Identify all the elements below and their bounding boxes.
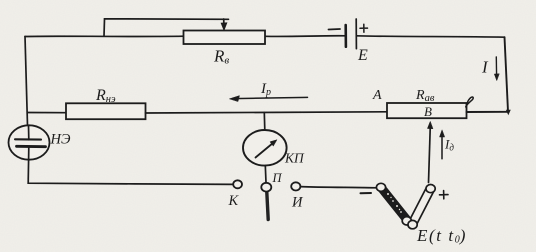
thermocouple end ring bottom junction a [402,217,411,225]
arrow tip at B tap [427,122,432,129]
thermocouple hot junction wire up to B [429,126,431,183]
label ℓ end of R_ав [466,97,473,108]
resistor R_нэ body [66,103,146,119]
wire middle center [146,112,388,113]
НЭ cell short plate [17,145,46,148]
arrow current I_д [441,134,443,159]
speckles on dark electrode [387,193,402,213]
svg-text:А: А [372,88,382,103]
svg-text:В: В [424,104,432,119]
wire И to thermocouple [300,187,377,188]
element НЭ circle [9,125,50,159]
svg-text:КП: КП [284,151,305,166]
svg-text:E(t t0): E(t t0) [416,226,467,246]
thermocouple end ring right top [426,185,435,193]
thermocouple left electrode (dark) [382,188,408,221]
arrow current I_p [233,97,308,98]
battery E short plate [344,25,347,47]
wire right vertical [505,37,509,111]
galvanometer КП body [243,130,287,166]
thermocouple minus sign [361,192,372,194]
svg-text:П: П [272,171,283,185]
switch blade П [267,192,268,220]
wire top left horizontal [25,35,184,37]
НЭ cell long plate [15,138,41,140]
wire middle left [28,112,67,114]
battery minus sign [329,28,341,31]
arrow current I top right [495,57,497,77]
wire bottom left [28,160,233,185]
НЭ cell internal stub bottom [28,147,30,160]
wire top mid horizontal to battery [265,35,345,38]
svg-text:НЭ: НЭ [50,132,71,148]
terminal П [261,183,271,192]
thermocouple end ring bottom junction b [408,220,417,228]
wire left vertical [25,37,28,126]
svg-text:К: К [228,193,240,209]
resistor R_ав body [387,103,467,118]
terminal И [291,182,300,190]
svg-text:И: И [291,195,304,211]
galvanometer needle [256,143,274,158]
wire galvanometer drop [263,113,266,131]
wire galvanometer to П [264,166,267,183]
thermocouple right electrode (light) outline [412,189,430,225]
wire middle right [467,111,509,113]
battery plus sign [360,24,368,32]
НЭ cell internal stub top [28,126,30,140]
rheostat R_B body [184,31,266,45]
thermocouple plus sign [440,191,449,199]
rheostat R_B arrow tip [221,23,227,31]
node arrow right corner [506,110,510,115]
battery E long plate [355,19,357,49]
wire rheostat tap [104,19,229,36]
svg-text:E: E [357,47,368,64]
thermocouple end ring left top [376,183,385,191]
wire battery to top right corner [357,36,505,37]
terminal К [233,180,242,188]
